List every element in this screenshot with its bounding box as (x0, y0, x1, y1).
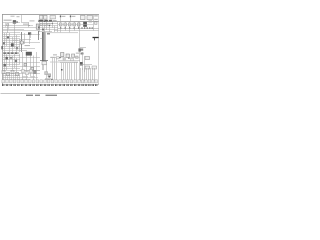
wire (38, 27, 58, 29)
connector shell (44, 80, 47, 83)
wire (33, 56, 35, 81)
ground tick (64, 84, 65, 86)
label text (50, 61, 78, 64)
junction (52, 23, 53, 24)
bus bar (93, 37, 99, 39)
wire (63, 63, 65, 80)
wire (46, 65, 48, 80)
wire (22, 22, 30, 24)
terminal (60, 16, 62, 18)
connector C3 (40, 23, 42, 25)
wire (3, 70, 41, 72)
frame top border (2, 14, 99, 16)
wire (40, 60, 48, 62)
wire (82, 68, 84, 81)
ground tick (15, 84, 16, 86)
wire (3, 25, 34, 27)
ground tick (32, 84, 33, 86)
wire (19, 54, 21, 64)
wire (42, 22, 44, 29)
ground tick (44, 84, 45, 86)
junction box J5 (42, 61, 47, 64)
ground tick (30, 84, 31, 86)
fuse F2 (59, 23, 62, 26)
wire (3, 38, 21, 40)
ground tick (34, 84, 35, 86)
junction (61, 69, 63, 71)
junction (69, 27, 70, 28)
wire (60, 62, 78, 64)
connector shell (6, 80, 9, 83)
wire (26, 56, 28, 81)
wire (58, 24, 94, 26)
label text (11, 52, 13, 54)
wire (84, 56, 86, 72)
wire (14, 33, 16, 48)
wire (94, 37, 96, 40)
label text (4, 20, 12, 21)
wire (3, 29, 25, 31)
harness trunk wire (42, 32, 44, 61)
wire (78, 26, 80, 28)
wire (60, 15, 62, 22)
connector C20 (71, 58, 74, 60)
wire (3, 48, 36, 50)
ground tick (86, 84, 87, 86)
junction (44, 21, 45, 22)
lamp L7 (30, 70, 33, 73)
wire (20, 77, 38, 79)
junction (51, 79, 52, 81)
wire (58, 28, 99, 30)
junction box J3 (87, 15, 93, 19)
wire (69, 22, 71, 23)
wire (9, 54, 11, 66)
ground tick (60, 84, 61, 86)
wire (4, 33, 6, 52)
ground tick (7, 84, 8, 86)
connector shell (2, 80, 5, 83)
wire (45, 32, 47, 62)
wire (5, 73, 7, 80)
lamp L5 (22, 70, 25, 73)
ground tick (2, 84, 3, 86)
harness trunk wire (43, 32, 45, 61)
wire (38, 21, 99, 23)
ground tick (51, 84, 52, 86)
wire (17, 73, 19, 80)
connector shell (47, 80, 50, 83)
wire (52, 22, 54, 28)
wire (40, 23, 58, 25)
caption text (35, 95, 40, 96)
connector shell (21, 80, 24, 83)
connector shell (29, 80, 32, 83)
connector shell (25, 80, 28, 83)
wire (5, 23, 7, 28)
ground tick (49, 84, 50, 86)
label text (30, 76, 35, 77)
wire (14, 23, 16, 33)
ecu U1 (28, 32, 31, 35)
wire (9, 73, 11, 80)
ground tick (75, 84, 76, 86)
sensor S1 (81, 53, 84, 55)
relay R5 (3, 42, 5, 44)
wire (78, 22, 80, 23)
connector C12 (61, 53, 64, 57)
wire (3, 57, 41, 59)
wire (19, 39, 21, 52)
frame bottom border (2, 84, 99, 86)
wire (22, 52, 24, 80)
ground tick (70, 84, 71, 86)
junction (49, 76, 50, 77)
wire (21, 15, 23, 23)
wire (6, 54, 8, 70)
wire (43, 61, 45, 70)
connector C4 (44, 23, 46, 25)
wire (74, 22, 76, 23)
connector shell (59, 80, 62, 83)
wire (3, 64, 21, 66)
wire (60, 28, 62, 33)
connector C15 (85, 66, 90, 69)
connector shell (36, 80, 39, 83)
wire (38, 25, 58, 27)
wire (13, 73, 15, 80)
connector shell (10, 80, 13, 83)
label text band (3, 52, 20, 54)
ground tick (88, 84, 89, 86)
connector C10 (24, 63, 27, 66)
ground tick (13, 84, 14, 86)
wire (12, 37, 14, 52)
wire (30, 56, 32, 77)
junction box J2 (81, 15, 86, 19)
wire (69, 63, 71, 80)
fuse F4 (68, 23, 71, 26)
ground tick (11, 84, 12, 86)
wire (67, 63, 69, 80)
ground tick (26, 84, 27, 86)
wire (3, 62, 21, 64)
ground tick (59, 84, 60, 86)
connector shell (55, 80, 58, 83)
label text (4, 38, 9, 39)
caption rule (1, 93, 100, 95)
connector C11 (31, 67, 34, 70)
connector C16 (92, 66, 97, 69)
ground tick (6, 84, 7, 86)
junction (81, 27, 82, 28)
ground tick (17, 84, 18, 86)
wire (3, 27, 41, 29)
label text (47, 31, 79, 34)
connector C14 (85, 57, 90, 60)
wire (80, 68, 82, 81)
ground tick (25, 84, 26, 86)
wire (93, 15, 95, 31)
connector C13 (66, 54, 69, 57)
wire (38, 29, 58, 31)
junction (84, 27, 85, 28)
wire (80, 47, 86, 49)
sensor S2 (10, 57, 13, 59)
ground tick (95, 84, 96, 86)
ground tick (83, 84, 84, 86)
wire (58, 60, 80, 62)
junction (89, 27, 90, 28)
connector C19 (63, 58, 65, 60)
wire (74, 28, 76, 31)
connector shell (92, 80, 95, 83)
frame right border (98, 14, 100, 84)
switch SW3 (7, 36, 9, 38)
ground tick (47, 84, 48, 86)
label text (15, 52, 17, 54)
wire (46, 22, 48, 30)
connector shell (51, 80, 54, 83)
label text (13, 40, 18, 41)
switch SW4 (15, 60, 17, 62)
wire (52, 58, 54, 80)
ground tick (53, 84, 54, 86)
wire (3, 68, 21, 70)
ground tick (63, 84, 64, 86)
ground tick (10, 84, 11, 86)
wire (3, 77, 21, 79)
connector shell (85, 80, 88, 83)
junction (29, 25, 30, 26)
wire (38, 31, 52, 33)
label text (94, 15, 98, 16)
connector C18 (57, 57, 60, 59)
wire (36, 52, 38, 80)
lamp L1 (2, 70, 5, 73)
junction (92, 27, 93, 28)
ground tick (78, 84, 79, 86)
ground tick (81, 84, 82, 86)
label text (23, 24, 29, 25)
wire (40, 38, 42, 40)
wire (6, 33, 8, 46)
wire (76, 62, 78, 80)
wire (3, 59, 21, 61)
lamp L2 (7, 72, 10, 75)
ground tick (19, 84, 20, 86)
wire (19, 73, 21, 80)
wire (50, 57, 80, 59)
ground tick (55, 84, 56, 86)
relay R1 (13, 20, 16, 23)
wire (29, 35, 31, 44)
ground tick (3, 84, 4, 86)
relay R6 (11, 43, 14, 46)
frame left border (2, 14, 4, 84)
ground tick (36, 84, 37, 86)
wire (60, 26, 62, 28)
connector shell (66, 80, 69, 83)
label text (51, 57, 56, 58)
relay R9 (6, 57, 8, 60)
connector shell (40, 80, 43, 83)
wire (20, 70, 40, 72)
wire (24, 33, 26, 44)
label text (17, 16, 20, 17)
motor M1 (83, 22, 87, 27)
connector shell (13, 80, 16, 83)
wire (69, 28, 71, 33)
wire (7, 73, 9, 80)
terminal (70, 16, 72, 18)
capacitor C6 (95, 22, 97, 25)
diode D1 (38, 26, 40, 28)
wire (54, 30, 99, 32)
caption text (46, 95, 58, 96)
relay R7 (1, 46, 3, 49)
wire (3, 73, 41, 75)
wire (74, 26, 76, 28)
wire (3, 32, 21, 34)
junction (74, 27, 75, 28)
fuse F5 (73, 23, 76, 26)
wire (80, 64, 92, 66)
wire (3, 36, 21, 38)
relay block R2 (50, 16, 56, 19)
label text (45, 78, 51, 79)
wire (9, 33, 11, 52)
ground tick (90, 84, 91, 86)
label text (30, 20, 35, 21)
ground tick (66, 84, 67, 86)
junction (60, 27, 61, 28)
wire (65, 22, 67, 23)
wire (3, 30, 39, 32)
wire (69, 26, 71, 28)
connector shell (81, 80, 84, 83)
connector shell (78, 80, 81, 83)
ground tick (79, 84, 80, 86)
wire (3, 22, 21, 24)
wire (82, 52, 84, 70)
relay R11 (80, 62, 83, 66)
wire (65, 26, 67, 28)
wire (44, 25, 46, 32)
wire (3, 50, 21, 52)
wire (60, 22, 62, 23)
connector C21 (76, 56, 79, 58)
label text (7, 52, 9, 54)
label text (53, 20, 57, 21)
ground tick (41, 84, 42, 86)
ground tick (72, 84, 73, 86)
wire (49, 26, 51, 32)
wire (21, 32, 23, 52)
wire (3, 46, 21, 48)
junction (65, 27, 66, 28)
lamp L3 (11, 70, 14, 73)
connector C2 (36, 24, 39, 29)
wire (61, 63, 63, 80)
wire (3, 34, 41, 36)
wire (20, 62, 40, 64)
lamp L6 (26, 72, 29, 75)
blower motor M2 (45, 72, 48, 75)
connector C8 (20, 41, 23, 44)
wire (42, 61, 44, 70)
wire (65, 63, 67, 80)
wire (70, 15, 72, 22)
label text (94, 19, 98, 20)
junction (49, 25, 50, 26)
ground tick (56, 84, 57, 86)
wire (3, 44, 21, 46)
wire (20, 39, 31, 41)
wire (56, 58, 58, 80)
resistor R8 (78, 48, 81, 51)
ecu U2 (4, 64, 6, 67)
wire (79, 22, 81, 80)
wire (28, 23, 30, 28)
wire (15, 73, 17, 80)
junction (60, 57, 61, 58)
fuse F3 (64, 23, 67, 26)
wire (30, 33, 32, 38)
connector shell (88, 80, 91, 83)
ground tick (96, 84, 97, 86)
wire (3, 73, 5, 80)
switch SW2 (44, 15, 47, 19)
ground tick (40, 84, 41, 86)
ground tick (93, 84, 94, 86)
label text (4, 52, 6, 54)
ground tick (21, 84, 22, 86)
wire (38, 31, 40, 40)
lamp L4 (16, 72, 19, 75)
wire (57, 22, 59, 32)
ground tick (92, 84, 93, 86)
label text (76, 53, 79, 54)
wire (3, 55, 21, 57)
label text (62, 16, 65, 17)
wire (54, 58, 56, 80)
wire (86, 68, 88, 81)
wire (16, 35, 18, 52)
wire (8, 25, 10, 29)
wire (54, 26, 56, 32)
terminal strip (39, 20, 44, 22)
fuse F6 (77, 23, 80, 26)
wire (3, 79, 31, 81)
wire (88, 68, 90, 81)
ground tick (29, 84, 30, 86)
ground tick (45, 84, 46, 86)
junction (68, 58, 69, 59)
terminal (16, 21, 18, 23)
wire (65, 28, 67, 31)
wire (20, 50, 27, 52)
wire (14, 54, 16, 68)
fuse F1 (7, 24, 9, 26)
wire (84, 68, 86, 81)
harness trunk wire (44, 32, 46, 61)
resistor pack R12 (48, 74, 51, 77)
wire (3, 75, 21, 77)
connector shell (70, 80, 73, 83)
terminal strip (49, 20, 52, 22)
wire (39, 22, 41, 32)
